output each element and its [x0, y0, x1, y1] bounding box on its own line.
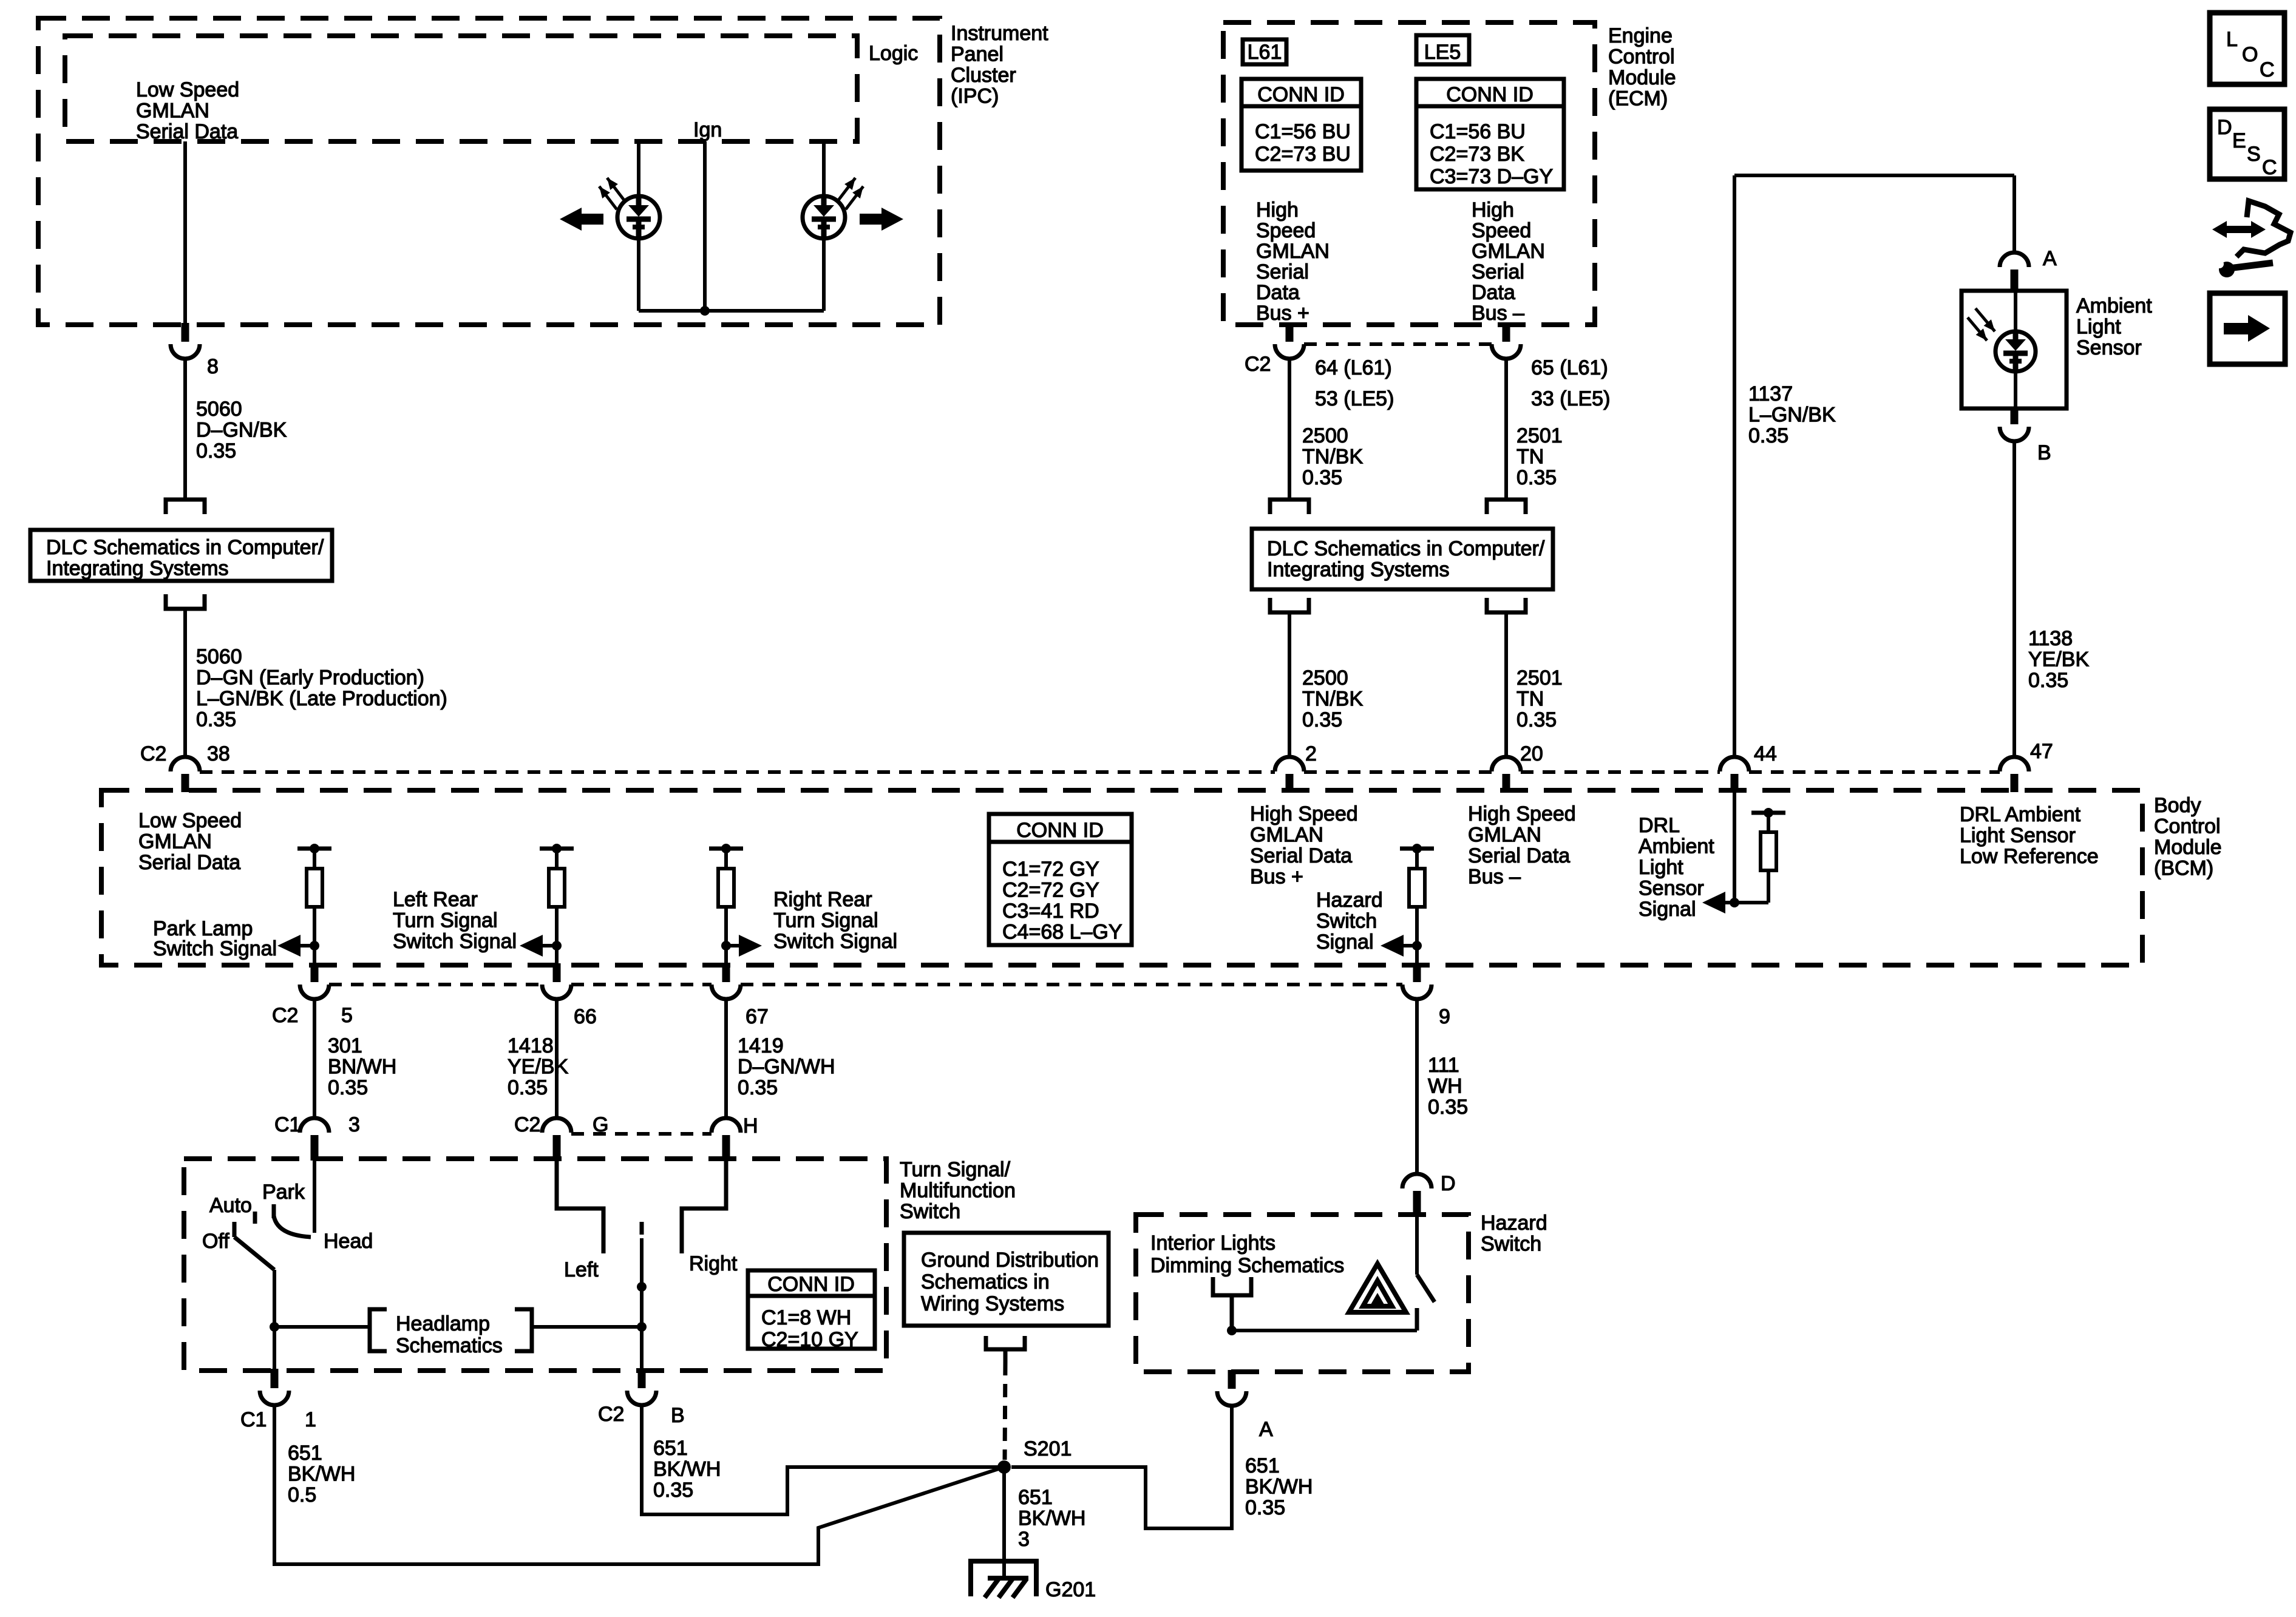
svg-text:DLC Schematics in Computer/: DLC Schematics in Computer/: [1267, 537, 1545, 560]
svg-text:BK/WH: BK/WH: [1018, 1507, 1085, 1530]
svg-text:Module: Module: [2154, 836, 2222, 859]
svg-text:C2=10 GY: C2=10 GY: [761, 1328, 858, 1351]
svg-text:2500: 2500: [1302, 666, 1348, 690]
svg-text:Bus –: Bus –: [1468, 866, 1521, 889]
svg-text:2501: 2501: [1517, 666, 1563, 690]
svg-text:Bus +: Bus +: [1250, 866, 1303, 889]
svg-text:GMLAN: GMLAN: [138, 830, 212, 853]
svg-text:20: 20: [1520, 742, 1543, 765]
svg-text:44: 44: [1754, 742, 1777, 765]
svg-text:DLC Schematics in Computer/: DLC Schematics in Computer/: [46, 536, 324, 559]
svg-text:DRL: DRL: [1639, 814, 1680, 837]
svg-text:Off: Off: [202, 1230, 229, 1253]
svg-text:S: S: [2247, 143, 2261, 166]
svg-text:Head: Head: [324, 1230, 373, 1253]
svg-text:Switch: Switch: [1481, 1233, 1541, 1256]
svg-text:C3=41 RD: C3=41 RD: [1002, 900, 1099, 923]
svg-text:(BCM): (BCM): [2154, 857, 2213, 880]
svg-text:Sensor: Sensor: [1639, 877, 1704, 900]
svg-text:Left: Left: [564, 1258, 599, 1281]
svg-text:111: 111: [1428, 1054, 1459, 1077]
svg-text:C2: C2: [514, 1113, 540, 1136]
svg-text:Low Reference: Low Reference: [1960, 845, 2099, 868]
svg-text:Right Rear: Right Rear: [773, 888, 872, 911]
svg-text:C: C: [2262, 156, 2277, 179]
svg-text:Low Speed: Low Speed: [136, 78, 239, 101]
svg-text:C1=56 BU: C1=56 BU: [1430, 120, 1526, 143]
svg-text:5060: 5060: [196, 398, 242, 421]
svg-text:0.35: 0.35: [328, 1076, 368, 1099]
svg-text:Data: Data: [1472, 281, 1515, 304]
svg-text:B: B: [671, 1404, 685, 1427]
svg-text:8: 8: [207, 355, 219, 378]
svg-text:C: C: [2260, 58, 2275, 81]
svg-text:L: L: [2226, 28, 2238, 51]
svg-text:Light: Light: [2076, 316, 2121, 339]
svg-text:Integrating Systems: Integrating Systems: [1267, 558, 1449, 581]
svg-text:Switch: Switch: [900, 1200, 960, 1223]
svg-text:Serial Data: Serial Data: [136, 120, 238, 143]
svg-text:O: O: [2242, 43, 2258, 66]
svg-text:0.35: 0.35: [1428, 1096, 1468, 1119]
svg-text:BK/WH: BK/WH: [1245, 1476, 1313, 1499]
svg-text:Park: Park: [262, 1181, 305, 1204]
svg-text:Turn Signal: Turn Signal: [393, 909, 498, 932]
svg-text:Serial Data: Serial Data: [1468, 844, 1570, 867]
svg-text:1137: 1137: [1748, 382, 1793, 405]
svg-text:Hazard: Hazard: [1316, 889, 1383, 912]
svg-text:BK/WH: BK/WH: [288, 1463, 355, 1486]
svg-text:Low Speed: Low Speed: [138, 809, 242, 832]
svg-text:Serial Data: Serial Data: [138, 851, 240, 874]
svg-text:Control: Control: [1608, 46, 1675, 69]
svg-text:0.35: 0.35: [1517, 466, 1557, 489]
svg-text:1138: 1138: [2028, 627, 2073, 650]
svg-text:C4=68 L–GY: C4=68 L–GY: [1002, 921, 1123, 944]
svg-text:Signal: Signal: [1639, 898, 1696, 921]
svg-text:Module: Module: [1608, 66, 1676, 89]
svg-text:651: 651: [288, 1442, 322, 1465]
svg-text:Integrating Systems: Integrating Systems: [46, 557, 228, 580]
svg-text:TN/BK: TN/BK: [1302, 446, 1363, 469]
svg-text:Speed: Speed: [1472, 219, 1531, 242]
svg-text:1418: 1418: [508, 1034, 554, 1057]
svg-text:C2=73 BK: C2=73 BK: [1430, 143, 1524, 166]
svg-text:38: 38: [207, 742, 230, 765]
svg-text:C2: C2: [140, 742, 166, 765]
svg-text:TN: TN: [1517, 446, 1544, 469]
svg-text:D–GN (Early Production): D–GN (Early Production): [196, 666, 424, 690]
svg-text:A: A: [1259, 1418, 1273, 1441]
svg-text:C2: C2: [1245, 353, 1271, 376]
svg-text:YE/BK: YE/BK: [508, 1056, 568, 1079]
svg-text:0.35: 0.35: [2028, 669, 2068, 692]
svg-text:Multifunction: Multifunction: [900, 1179, 1016, 1202]
svg-text:Sensor: Sensor: [2076, 336, 2142, 359]
svg-text:BN/WH: BN/WH: [328, 1056, 396, 1079]
svg-text:Turn Signal/: Turn Signal/: [900, 1158, 1011, 1181]
svg-text:64 (L61): 64 (L61): [1315, 356, 1392, 379]
svg-text:TN: TN: [1517, 688, 1544, 711]
svg-text:Serial: Serial: [1472, 260, 1524, 283]
svg-text:Auto: Auto: [209, 1194, 252, 1217]
svg-text:Light Sensor: Light Sensor: [1960, 824, 2076, 847]
svg-text:Ign: Ign: [693, 118, 722, 141]
svg-text:Cluster: Cluster: [951, 64, 1016, 87]
svg-text:Bus +: Bus +: [1256, 302, 1309, 325]
svg-text:C2: C2: [272, 1004, 298, 1027]
svg-text:Switch: Switch: [1316, 910, 1377, 933]
svg-text:53 (LE5): 53 (LE5): [1315, 387, 1394, 410]
svg-text:H: H: [743, 1114, 758, 1137]
svg-text:High Speed: High Speed: [1250, 802, 1358, 825]
svg-text:0.35: 0.35: [196, 708, 236, 731]
svg-text:Dimming Schematics: Dimming Schematics: [1150, 1254, 1344, 1277]
svg-text:CONN ID: CONN ID: [1446, 83, 1533, 106]
svg-text:0.35: 0.35: [738, 1076, 778, 1099]
svg-text:Speed: Speed: [1256, 219, 1316, 242]
svg-text:DRL Ambient: DRL Ambient: [1960, 803, 2081, 826]
svg-text:2501: 2501: [1517, 424, 1563, 447]
svg-text:Schematics: Schematics: [396, 1334, 503, 1357]
svg-text:Engine: Engine: [1608, 24, 1673, 47]
svg-text:Serial: Serial: [1256, 260, 1309, 283]
svg-text:C1: C1: [240, 1408, 267, 1431]
svg-text:0.5: 0.5: [288, 1483, 316, 1507]
svg-text:High: High: [1256, 198, 1299, 222]
svg-text:L–GN/BK: L–GN/BK: [1748, 404, 1836, 427]
svg-text:2500: 2500: [1302, 424, 1348, 447]
svg-text:High Speed: High Speed: [1468, 802, 1576, 825]
svg-text:3: 3: [348, 1113, 360, 1136]
svg-text:BK/WH: BK/WH: [653, 1458, 721, 1481]
svg-text:9: 9: [1439, 1005, 1450, 1028]
svg-text:Left Rear: Left Rear: [393, 888, 478, 911]
svg-text:Right: Right: [689, 1252, 738, 1275]
svg-text:Bus –: Bus –: [1472, 302, 1524, 325]
svg-text:0.35: 0.35: [1302, 466, 1342, 489]
svg-text:C3=73 D–GY: C3=73 D–GY: [1430, 165, 1553, 188]
svg-text:Instrument: Instrument: [951, 22, 1048, 45]
svg-text:E: E: [2232, 129, 2246, 152]
svg-text:Serial Data: Serial Data: [1250, 844, 1352, 867]
svg-text:C2: C2: [598, 1403, 624, 1426]
svg-text:C2=73 BU: C2=73 BU: [1255, 143, 1351, 166]
svg-text:0.35: 0.35: [653, 1479, 693, 1502]
svg-text:CONN ID: CONN ID: [767, 1273, 855, 1296]
svg-text:651: 651: [1245, 1454, 1280, 1477]
svg-text:5: 5: [341, 1004, 353, 1027]
svg-text:GMLAN: GMLAN: [136, 100, 209, 123]
svg-text:Logic: Logic: [869, 42, 918, 65]
svg-text:67: 67: [746, 1005, 769, 1028]
svg-text:(ECM): (ECM): [1608, 87, 1668, 110]
svg-text:L–GN/BK (Late Production): L–GN/BK (Late Production): [196, 687, 447, 710]
svg-text:(IPC): (IPC): [951, 85, 999, 108]
svg-text:GMLAN: GMLAN: [1472, 240, 1545, 263]
svg-text:High: High: [1472, 198, 1514, 222]
svg-text:C1=8 WH: C1=8 WH: [761, 1306, 851, 1329]
svg-text:L61: L61: [1248, 41, 1282, 64]
svg-text:D: D: [1441, 1172, 1456, 1195]
svg-text:Ambient: Ambient: [1639, 835, 1714, 858]
svg-text:B: B: [2037, 441, 2051, 464]
svg-text:651: 651: [653, 1437, 688, 1460]
svg-text:YE/BK: YE/BK: [2028, 648, 2089, 671]
svg-text:G: G: [593, 1113, 608, 1136]
svg-text:D–GN/WH: D–GN/WH: [738, 1056, 835, 1079]
svg-text:1: 1: [305, 1408, 316, 1431]
svg-text:0.35: 0.35: [196, 439, 236, 463]
svg-text:CONN ID: CONN ID: [1016, 819, 1104, 842]
svg-text:47: 47: [2030, 740, 2053, 763]
svg-text:Signal: Signal: [1316, 931, 1374, 954]
svg-text:C2=72 GY: C2=72 GY: [1002, 879, 1099, 902]
svg-text:Ground Distribution: Ground Distribution: [921, 1249, 1099, 1272]
svg-text:CONN ID: CONN ID: [1257, 83, 1345, 106]
svg-text:Switch Signal: Switch Signal: [153, 937, 277, 960]
svg-text:65 (L61): 65 (L61): [1531, 356, 1608, 379]
svg-text:G201: G201: [1045, 1578, 1096, 1601]
svg-text:301: 301: [328, 1034, 362, 1057]
svg-text:S201: S201: [1024, 1437, 1072, 1460]
svg-text:A: A: [2043, 247, 2057, 270]
svg-text:GMLAN: GMLAN: [1468, 824, 1541, 847]
svg-text:Panel: Panel: [951, 43, 1004, 66]
svg-text:Wiring Systems: Wiring Systems: [921, 1292, 1064, 1315]
svg-text:Turn Signal: Turn Signal: [773, 909, 878, 932]
svg-text:Schematics in: Schematics in: [921, 1270, 1050, 1293]
svg-text:TN/BK: TN/BK: [1302, 688, 1363, 711]
svg-text:1419: 1419: [738, 1034, 784, 1057]
svg-text:LE5: LE5: [1424, 41, 1461, 64]
svg-text:0.35: 0.35: [1748, 424, 1788, 447]
svg-text:Switch Signal: Switch Signal: [773, 930, 897, 953]
svg-text:0.35: 0.35: [1517, 708, 1557, 731]
svg-text:GMLAN: GMLAN: [1250, 824, 1323, 847]
svg-text:0.35: 0.35: [508, 1076, 548, 1099]
svg-text:C1=72 GY: C1=72 GY: [1002, 858, 1099, 881]
svg-text:Hazard: Hazard: [1481, 1212, 1547, 1235]
svg-text:5060: 5060: [196, 645, 242, 668]
svg-text:Switch Signal: Switch Signal: [393, 930, 517, 953]
svg-text:C1: C1: [274, 1113, 301, 1136]
svg-text:Data: Data: [1256, 281, 1300, 304]
svg-text:Control: Control: [2154, 815, 2221, 838]
svg-text:Light: Light: [1639, 856, 1683, 879]
svg-text:D: D: [2217, 116, 2232, 139]
svg-text:33 (LE5): 33 (LE5): [1531, 387, 1610, 410]
svg-text:66: 66: [574, 1005, 597, 1028]
svg-text:0.35: 0.35: [1302, 708, 1342, 731]
svg-text:Interior Lights: Interior Lights: [1150, 1232, 1275, 1255]
svg-text:Body: Body: [2154, 794, 2201, 817]
svg-text:0.35: 0.35: [1245, 1496, 1285, 1519]
svg-text:3: 3: [1018, 1528, 1030, 1551]
svg-text:Headlamp: Headlamp: [396, 1312, 490, 1335]
svg-text:651: 651: [1018, 1486, 1053, 1509]
svg-text:WH: WH: [1428, 1075, 1462, 1098]
svg-text:C1=56 BU: C1=56 BU: [1255, 120, 1351, 143]
svg-text:2: 2: [1305, 742, 1317, 765]
svg-text:GMLAN: GMLAN: [1256, 240, 1330, 263]
svg-text:D–GN/BK: D–GN/BK: [196, 419, 287, 442]
svg-text:Ambient: Ambient: [2076, 294, 2152, 317]
